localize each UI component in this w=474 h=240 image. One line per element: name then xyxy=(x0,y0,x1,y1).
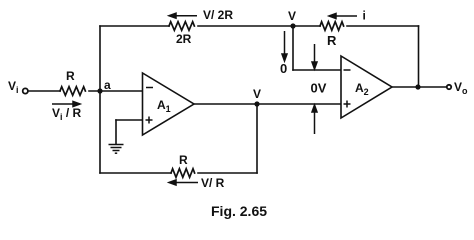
svg-text:Vi / R: Vi / R xyxy=(52,106,82,122)
svg-text:0V: 0V xyxy=(311,81,327,96)
svg-text:Fig. 2.65: Fig. 2.65 xyxy=(211,203,267,219)
svg-text:V: V xyxy=(288,9,296,23)
svg-text:R: R xyxy=(179,153,188,167)
svg-text:V: V xyxy=(253,87,261,101)
svg-text:a: a xyxy=(104,78,111,92)
svg-text:V/ R: V/ R xyxy=(201,176,225,190)
svg-text:V/ 2R: V/ 2R xyxy=(203,8,233,22)
svg-text:R: R xyxy=(66,69,75,83)
svg-text:R: R xyxy=(327,33,337,48)
svg-text:i: i xyxy=(363,9,366,23)
svg-text:2R: 2R xyxy=(176,32,192,46)
svg-text:0: 0 xyxy=(280,61,287,76)
